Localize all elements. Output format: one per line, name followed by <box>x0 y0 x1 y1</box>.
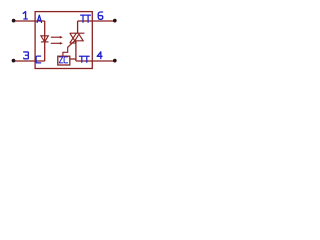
LED light arrow 1 <box>51 36 60 38</box>
triac Q1 top lead <box>77 21 79 33</box>
pin end dot 6 <box>113 19 117 23</box>
LED light arrow 2 <box>51 42 60 44</box>
pin number 6 <box>98 12 103 19</box>
wire pin6 <box>78 20 115 22</box>
pin number 4 <box>97 52 102 59</box>
LED D1 cathode bar <box>41 41 49 43</box>
wire pin1 <box>14 20 45 22</box>
triac Q1 up triangle <box>75 34 83 41</box>
triac Q1 crossing diagonal 1 <box>70 33 77 43</box>
pin name A <box>37 15 41 22</box>
ZC box <box>58 56 70 65</box>
pin name TT bottom <box>79 56 89 62</box>
pin number 1 <box>23 12 27 19</box>
triac Q1 lower bar <box>70 42 77 44</box>
ZC output wire <box>70 58 76 60</box>
triac Q1 crossing diagonal 2 <box>70 33 77 43</box>
pin number 3 <box>24 52 29 59</box>
pin name C <box>36 56 41 63</box>
pin end dot 4 <box>113 59 117 63</box>
ZC label <box>59 57 67 63</box>
pin end dot 3 <box>12 59 16 63</box>
LED D1 triangle <box>41 36 48 42</box>
pin end dot 1 <box>12 19 16 23</box>
wire pin4 <box>76 60 115 62</box>
wire pin3 <box>14 60 45 62</box>
IC body box U1 <box>35 12 92 69</box>
triac Q1 bottom lead <box>75 41 77 61</box>
triac gate wire <box>63 41 75 56</box>
LED D1 anode lead (continuous axis) <box>44 21 46 61</box>
triac Q1 top bar <box>70 32 85 34</box>
pin name TT top <box>81 15 91 22</box>
